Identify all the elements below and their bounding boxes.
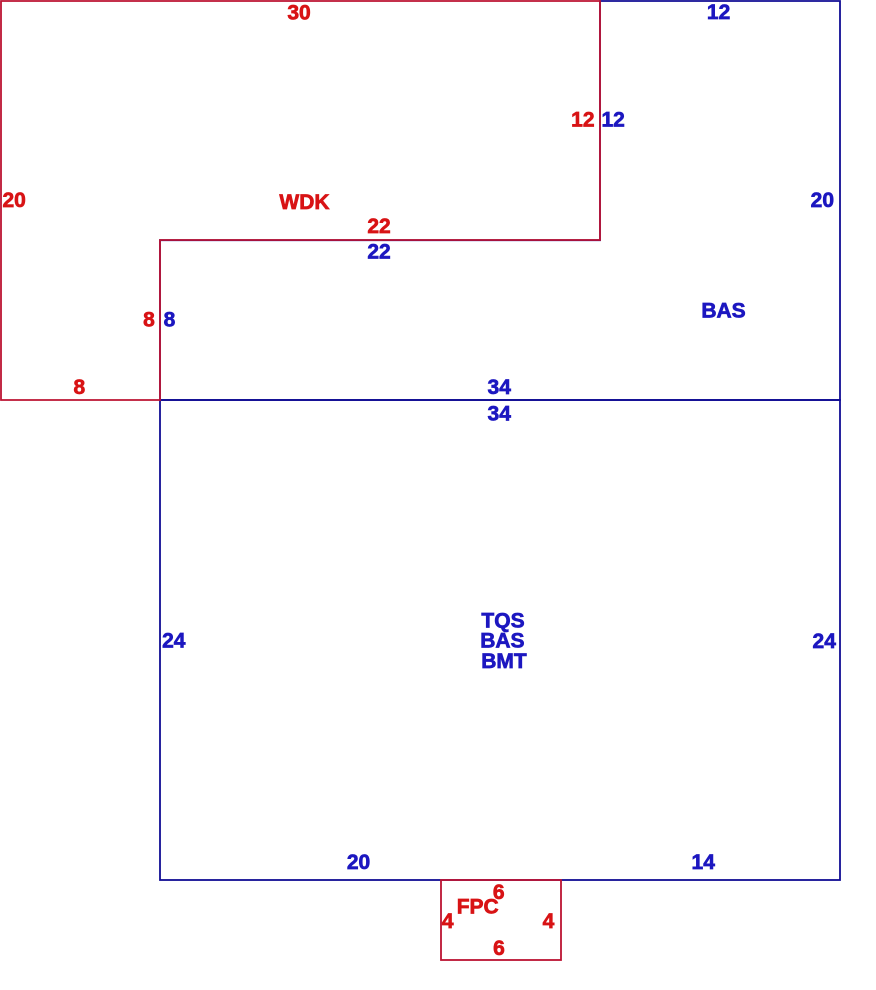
svg-text:WDK: WDK [279, 191, 329, 214]
svg-text:14: 14 [692, 851, 716, 874]
svg-text:BAS: BAS [701, 300, 745, 323]
svg-text:BMT: BMT [481, 650, 527, 673]
svg-text:6: 6 [493, 937, 505, 960]
svg-text:24: 24 [813, 630, 837, 653]
svg-text:24: 24 [162, 630, 186, 653]
svg-text:12: 12 [707, 1, 730, 24]
svg-text:20: 20 [347, 851, 370, 874]
svg-text:22: 22 [367, 215, 390, 238]
svg-text:8: 8 [74, 376, 86, 399]
svg-text:4: 4 [442, 910, 454, 933]
svg-text:8: 8 [143, 309, 155, 332]
svg-text:20: 20 [3, 189, 26, 212]
area outline WDK (red polygon) [1, 1, 600, 400]
svg-text:30: 30 [287, 2, 310, 25]
area outline BAS (upper blue polygon) [160, 1, 840, 400]
svg-text:12: 12 [602, 109, 625, 132]
svg-text:34: 34 [488, 403, 512, 426]
svg-text:20: 20 [811, 189, 834, 212]
svg-text:8: 8 [164, 309, 176, 332]
svg-text:12: 12 [571, 109, 594, 132]
area outline FPC (small red rectangle) [441, 880, 561, 960]
svg-text:22: 22 [367, 241, 390, 264]
area outline TQS BAS BMT (lower blue rectangle) [160, 400, 840, 880]
svg-text:4: 4 [543, 910, 555, 933]
svg-text:34: 34 [488, 376, 512, 399]
svg-text:FPC: FPC [457, 895, 499, 918]
